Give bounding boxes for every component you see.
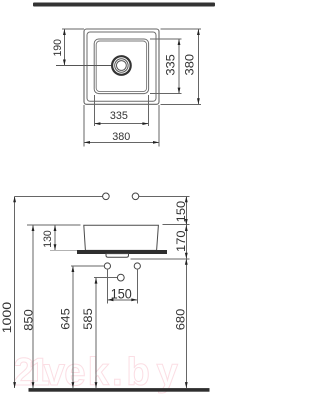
svg-text:585: 585 [81, 308, 95, 330]
dim 380 bottom left extension line [83, 105, 85, 147]
svg-text:380: 380 [112, 131, 130, 143]
dim 380 right top extension line [161, 28, 201, 30]
counter underside extension [131, 258, 190, 260]
faucet holes line left segment [15, 195, 103, 197]
basin bowl outer edge [94, 39, 148, 94]
svg-text:680: 680 [174, 308, 188, 330]
floor bar [29, 388, 210, 392]
basin bowl inner edge [96, 41, 146, 92]
dim 680 line [185, 259, 187, 388]
dim 150 bottom left extension line [106, 269, 108, 304]
dim 130 line [54, 225, 56, 250]
svg-text:335: 335 [164, 54, 178, 76]
supply circle C [134, 263, 140, 269]
dim 150 bottom right extension line [136, 269, 138, 304]
faucet hole right [132, 193, 139, 200]
sink side profile [84, 225, 159, 250]
svg-text:335: 335 [110, 110, 128, 122]
basin rim square [87, 32, 156, 101]
dim 335 bottom line [94, 123, 148, 125]
dim 380 right bottom extension line [161, 103, 201, 105]
dim 335 right bottom extension line [150, 93, 182, 95]
faucet holes line right segment [139, 195, 190, 197]
leader to supply A [71, 265, 105, 267]
basin outer square (380) [84, 29, 159, 104]
supply circle A [104, 263, 110, 269]
dim 380 right line [197, 29, 199, 104]
drain inner ring [117, 61, 127, 71]
drain notch under counter [106, 254, 129, 258]
dim 850 line [32, 225, 34, 388]
dim 335 bottom right extension line [147, 95, 149, 126]
svg-text:170: 170 [174, 230, 188, 252]
drain middle ring [115, 59, 128, 72]
dim 1000 line [14, 196, 16, 388]
dim 645 line [72, 266, 74, 388]
dim 190 extension top [62, 28, 84, 30]
dim 335 right line [178, 39, 180, 94]
dim 170 right line [185, 225, 187, 259]
counter bar [77, 250, 167, 254]
dim 335 bottom left extension line [93, 95, 95, 126]
svg-text:150: 150 [111, 286, 132, 301]
svg-text:1000: 1000 [0, 301, 14, 333]
leader to drain B [94, 277, 118, 279]
dim 335 right top extension line [150, 38, 182, 40]
dim 190 line [63, 29, 65, 66]
svg-text:380: 380 [183, 54, 197, 76]
dim 380 bottom line [84, 141, 159, 143]
svg-text:130: 130 [42, 230, 54, 248]
drain circle B [117, 274, 124, 281]
dim 380 bottom right extension line [158, 105, 160, 147]
svg-text:850: 850 [22, 309, 36, 331]
dim 150 bottom line [107, 299, 137, 301]
dim 150 right line [185, 196, 187, 225]
counter top extension line [50, 249, 78, 251]
drain outer ring [112, 56, 131, 75]
sink rim extension left [27, 224, 81, 226]
faucet hole left [103, 193, 110, 200]
top shelf bar [33, 3, 215, 7]
drain leader line [56, 65, 117, 67]
svg-text:150: 150 [174, 201, 188, 223]
dim 585 line [95, 278, 97, 389]
svg-text:190: 190 [52, 39, 64, 57]
sink rim extension right [162, 223, 189, 225]
svg-text:645: 645 [58, 308, 72, 330]
